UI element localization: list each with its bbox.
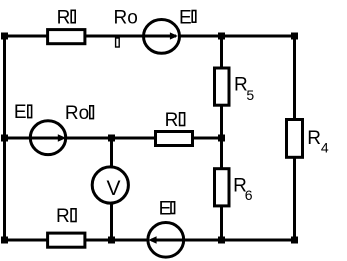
svg-text:E: E [179, 7, 192, 28]
wire middle horizontal [3, 137, 223, 140]
node top-right [291, 33, 298, 40]
voltmeter V circle [92, 167, 128, 203]
wire right vertical [293, 36, 296, 240]
label E3 [159, 198, 175, 219]
label R2 [56, 206, 76, 227]
wire left vertical [3, 35, 6, 242]
wire R5-R6 column vertical [220, 36, 223, 240]
node bottom-left [1, 237, 8, 244]
svg-text:V: V [107, 177, 121, 200]
arrowhead E1 right [170, 32, 178, 39]
svg-text:R: R [56, 206, 70, 227]
node middle voltmeter [108, 135, 115, 142]
label R4 [307, 128, 329, 156]
wire bottom horizontal [3, 239, 296, 242]
arrowhead E2 right [58, 134, 67, 141]
svg-text:5: 5 [246, 87, 254, 103]
label R3 [165, 110, 185, 131]
node middle R5-R6 [218, 135, 225, 142]
resistor R1 top [48, 30, 85, 44]
resistor R3 middle [156, 132, 193, 146]
wire top horizontal [3, 35, 296, 38]
label E1 [179, 7, 196, 28]
svg-text:R: R [57, 8, 71, 29]
label R6 [233, 176, 253, 204]
svg-text:Ro: Ro [114, 8, 138, 29]
label Ro2 [65, 103, 94, 124]
svg-text:R: R [307, 128, 321, 149]
resistor R4 [287, 120, 303, 158]
svg-text:4: 4 [321, 140, 329, 156]
label E2 [14, 102, 32, 123]
resistor R2 bottom [48, 233, 85, 247]
wire voltmeter branch vertical [110, 138, 113, 240]
wire shaft through E3 [151, 239, 185, 242]
source E1 top circle [144, 20, 180, 54]
source E2 middle circle [30, 121, 65, 155]
source E3 bottom circle [148, 223, 184, 258]
node middle-left [1, 135, 8, 142]
svg-text:E: E [14, 102, 27, 123]
label R1 [57, 8, 76, 29]
node top R5 column [218, 33, 225, 40]
svg-text:Ro: Ro [65, 103, 89, 124]
svg-text:6: 6 [245, 187, 253, 203]
svg-text:E: E [159, 198, 172, 219]
resistor R5 [215, 68, 230, 105]
node bottom-right [291, 237, 298, 244]
resistor R6 [215, 169, 230, 206]
wire shaft through E2 [29, 137, 63, 140]
label R5 [234, 75, 254, 103]
node bottom R6 [218, 237, 225, 244]
arrowhead E3 left [148, 236, 156, 243]
node top-left [1, 33, 8, 40]
svg-text:R: R [165, 110, 179, 131]
wire shaft through E1 [142, 35, 176, 38]
label subscript tofu under Ro [116, 38, 120, 47]
node bottom voltmeter [108, 237, 115, 244]
